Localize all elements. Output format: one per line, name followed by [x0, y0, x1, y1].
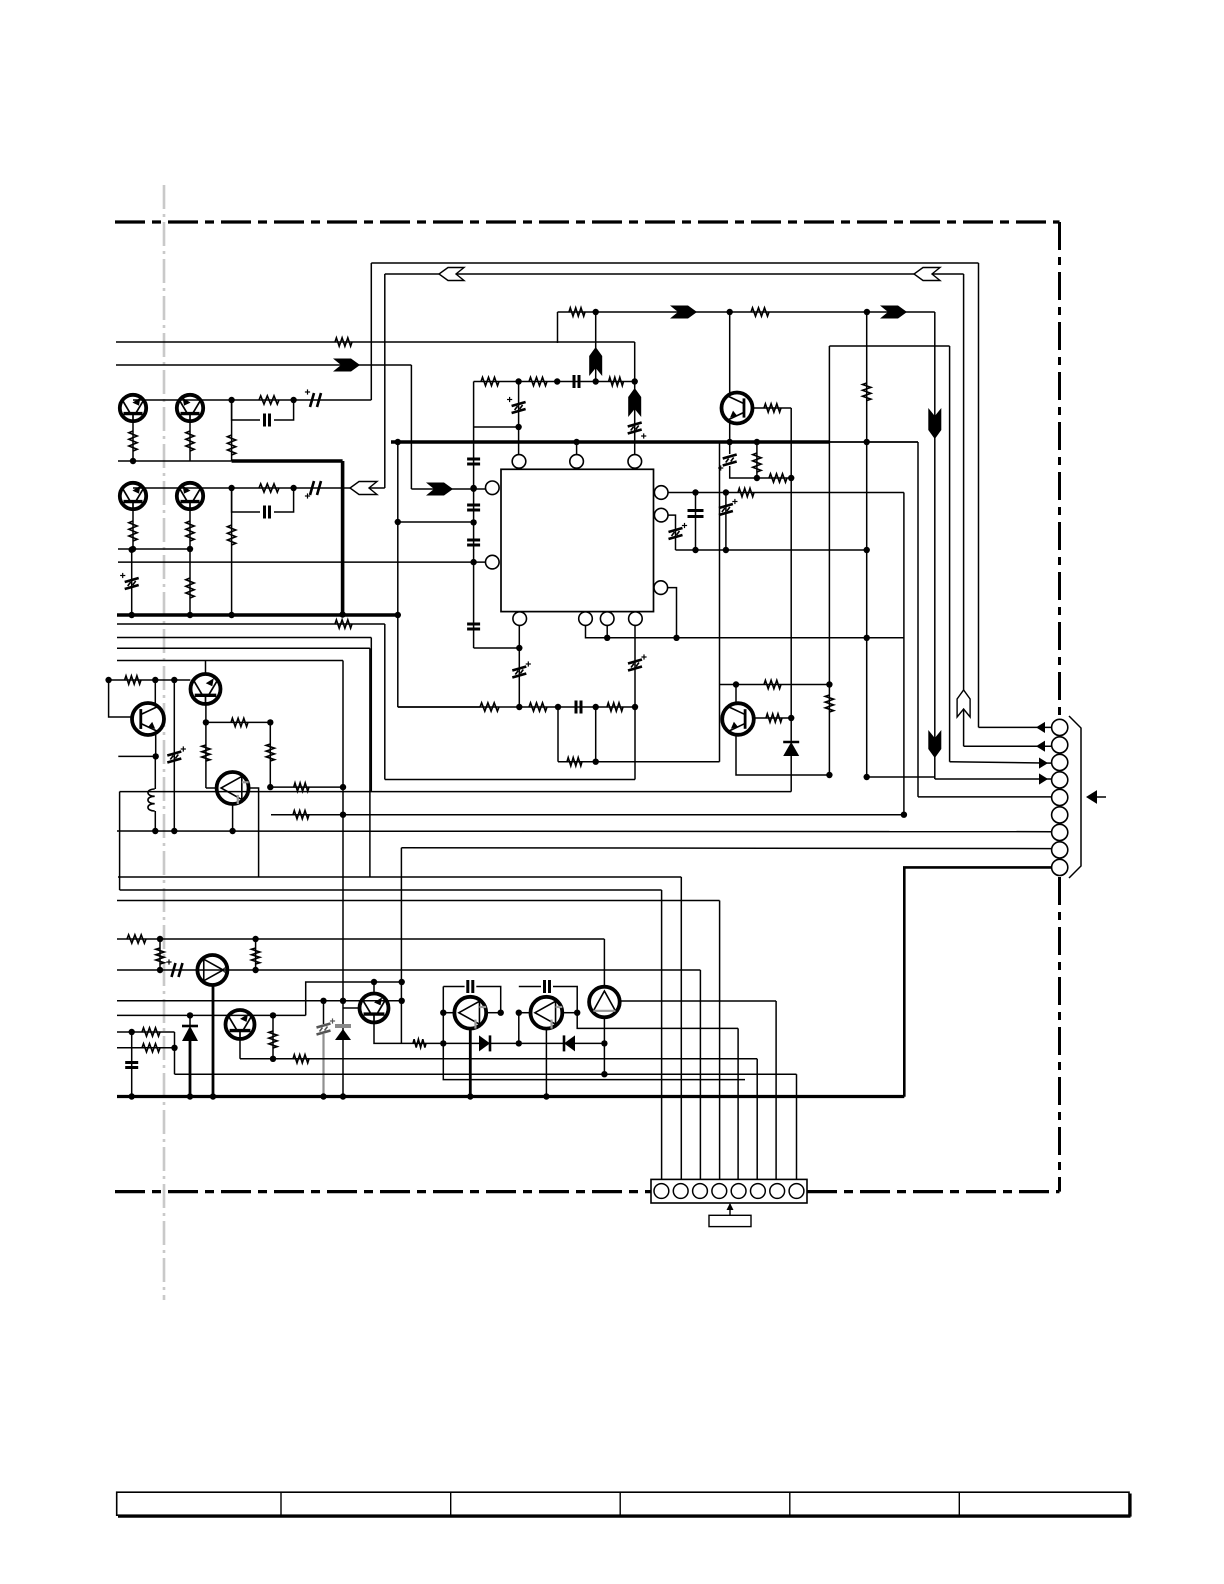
connector CN1 bracket: [1069, 716, 1081, 878]
connector CN2 pin circle 5: [731, 1184, 746, 1199]
junction 174.5/1047.8: [171, 1045, 177, 1051]
wire BUF4 right stub: [562, 1012, 577, 1014]
junction 273/1058.8: [270, 1056, 276, 1062]
wire net bus top outer: [371, 262, 978, 264]
transistor T10: [360, 994, 389, 1023]
wire row2 emitter join y549: [118, 548, 190, 550]
wire y707 chain: [398, 706, 480, 708]
electrolytic capacitor x635: [628, 660, 642, 671]
junction 133/461: [130, 458, 136, 464]
wire y427 link: [474, 426, 519, 428]
wire BUF4 left stub: [519, 1012, 531, 1014]
resistor y815: [293, 811, 309, 819]
wire inductor bottom: [154, 811, 156, 831]
arrowhead at CN1 bracket: [1086, 790, 1097, 804]
IC pin circle right 2: [654, 508, 668, 522]
junction 131.7/549.7: [129, 547, 135, 553]
junction 293.6/400: [290, 397, 296, 403]
junction 829.4/684.5: [826, 681, 832, 687]
junction 374/982: [371, 979, 377, 985]
wire vertical x369.9 to y877: [369, 648, 371, 877]
wire y890 line: [120, 889, 662, 891]
capacitor bracket row1 right: [274, 400, 294, 420]
capacitor chain c2: [467, 505, 480, 510]
connector CN1 pin circle 4: [1052, 772, 1068, 788]
IC pin circle right 1: [654, 486, 668, 500]
junction 323.5/1096.5: [320, 1093, 326, 1099]
thick wire BUF2 bottom: [212, 985, 215, 1097]
wire y848 line: [401, 847, 1051, 850]
junction 342.6/614: [339, 611, 345, 617]
resistor on y342: [335, 338, 352, 346]
wire IC bottom pin2 corner: [586, 625, 904, 637]
wire feed c4: [719, 901, 721, 1185]
wire vertical x384.8 lower: [384, 624, 386, 780]
capacitor bracket row2: [232, 488, 260, 512]
transistor Q4: [177, 483, 203, 509]
page frame bottom dash-dot border right segment: [807, 1190, 1060, 1193]
electrolytic capacitor x174.3: [167, 752, 181, 763]
wire x635 down to y779.5: [634, 707, 636, 780]
junction 756.9/478: [754, 475, 760, 481]
junction 518.6/427: [515, 424, 521, 430]
wire TA collector from y312: [729, 312, 731, 393]
page frame right dash-dot border lower segment: [1058, 877, 1061, 1192]
junction 133/549: [130, 546, 136, 552]
wire feed c5: [737, 1028, 739, 1184]
resistor x273: [269, 1031, 277, 1048]
capacitor bracket BUF3: [443, 986, 464, 988]
wire y831 long line: [117, 830, 1052, 833]
junction 725.9/550: [723, 547, 729, 553]
capacitor chain c1: [467, 459, 480, 464]
wire BUF1 base: [206, 787, 217, 789]
connector CN2 pin circle 6: [751, 1184, 766, 1199]
buffer transistor BUF2: [197, 955, 227, 985]
IC pin circle left 1: [486, 481, 500, 495]
capacitor chain c3: [467, 540, 480, 545]
junction 343/1000.8: [340, 998, 346, 1004]
signal arrow solid right to IC pin: [426, 483, 453, 496]
IC pin circle bottom 4: [629, 612, 643, 626]
wire y939 corner down to TRI1: [603, 939, 605, 987]
wire y550 join: [676, 549, 867, 551]
transistor T6: [132, 703, 164, 735]
connector CN2 pin circle 1: [654, 1184, 669, 1199]
junction 190/1015.4: [187, 1012, 193, 1018]
wire vertical outer loop left leg: [370, 263, 372, 400]
wire y680 line: [109, 679, 191, 681]
wire vertical x411 from y365 to IC arrow wire: [410, 365, 412, 489]
wire net bus second: [385, 273, 964, 275]
junction 595.7/707: [593, 704, 599, 710]
IC pin circle bottom 2: [579, 612, 593, 626]
resistor x160: [156, 948, 164, 964]
resistor x231.6 row2: [227, 525, 235, 545]
wire T6 base corner: [109, 680, 133, 717]
junction 473.6/522: [470, 519, 476, 525]
wire T5 collector: [205, 661, 207, 675]
signal arrow solid up on x595.7: [589, 347, 602, 376]
transistor T9: [226, 1010, 255, 1039]
wire IC right pin3 jog down: [668, 588, 677, 638]
wire input line y365: [116, 364, 411, 366]
inductor x155: [148, 789, 155, 811]
junction 231.6/400: [228, 397, 234, 403]
wire vertical second loop left leg: [384, 274, 386, 488]
signal arrow open up on x963.6: [957, 690, 970, 717]
wire x205.9 resistor drop: [205, 722, 207, 788]
wire row2 base line y488: [133, 487, 385, 489]
wire x270.3 resistor drop: [269, 722, 271, 787]
wire y522 line: [398, 521, 474, 523]
wire y660.5 line: [117, 660, 343, 662]
signal arrow solid right on y365: [333, 359, 360, 372]
electrolytic capacitor below TA: [723, 455, 737, 466]
junction 231.6/615: [228, 612, 234, 618]
wire inductor top: [154, 756, 156, 789]
electrolytic capacitor row1 y400: [310, 393, 321, 407]
connector CN1 pin circle 5: [1052, 789, 1068, 805]
wire x557.5 drop to y342: [557, 312, 559, 343]
wire vertical x634.7 from y342 to IC pin: [634, 342, 636, 382]
wire vertical x397.8: [397, 442, 399, 707]
capacitor above BUF3: [468, 980, 473, 993]
wire BUF1 bottom: [232, 804, 234, 831]
wire y970 line: [117, 969, 700, 971]
wire IC left pin1 arrow wire: [411, 488, 485, 490]
junction 343/787.1: [340, 784, 346, 790]
wire TB base resistor y718: [754, 717, 791, 719]
junction 343/1096.5: [340, 1093, 346, 1099]
junction 866.7/638: [864, 635, 870, 641]
wire IC top pin2 to bus: [576, 442, 578, 455]
wire row1 Q1 emitter resistor: [132, 422, 134, 462]
wire corner x729.7 to y478: [730, 466, 792, 478]
thick wire x190 diode to bus: [189, 1041, 192, 1097]
wire TA right resistor y408: [753, 407, 792, 409]
resistor y1058.8: [293, 1055, 309, 1063]
wire x866.7 vertical: [866, 312, 868, 777]
junction 903.9/815: [901, 812, 907, 818]
junction 401.7/1000.8: [399, 998, 405, 1004]
resistor y761.7: [567, 758, 582, 766]
connector CN1 pin circle 1: [1052, 719, 1068, 735]
triangle transistor TRI1: [589, 987, 620, 1018]
wire vertical x634.7 arrow+cap to pin: [634, 382, 636, 455]
wire feed c6: [756, 1059, 758, 1185]
arrowhead into c3: [1039, 758, 1048, 769]
junction 791.2/478: [788, 475, 794, 481]
connector CN2 pin circle 8: [789, 1184, 804, 1199]
fold mark gray vertical dash-dot line: [163, 185, 166, 1300]
buffer transistor BUF1: [217, 772, 249, 804]
wire x343 long vertical: [342, 661, 344, 1097]
resistor x205.9: [202, 745, 210, 761]
resistor y787.1: [294, 783, 309, 791]
wire y624 line: [117, 623, 385, 625]
connector CN2 box: [651, 1179, 807, 1203]
resistor row1 y400: [259, 396, 279, 404]
junction 473/489: [470, 486, 476, 492]
diode x343: [335, 1029, 351, 1040]
thick wire y461: [232, 459, 343, 463]
IC pin circle top 3: [628, 455, 642, 469]
wire BUF4 output jog: [577, 1013, 738, 1029]
wire corner x305.7 up: [306, 982, 402, 1015]
wire y684.5: [720, 684, 831, 686]
wire IC bottom pin3 stub: [606, 625, 608, 637]
diode y1043.4 left-pointing: [564, 1035, 575, 1051]
junction 695.5/550: [692, 547, 698, 553]
revision table: [117, 1492, 1131, 1516]
junction 190/1096.5: [187, 1093, 193, 1099]
wire corner x791.2 down: [790, 408, 792, 792]
wire feed c8: [796, 1074, 798, 1184]
connector CN1 arrow label: [1097, 796, 1106, 798]
junction 756.9/442: [754, 439, 760, 445]
connector CN2 label arrowhead: [727, 1203, 734, 1210]
wire x558 drop: [557, 707, 559, 762]
signal arrow open pointing left: [439, 268, 464, 281]
wire y727.4 to connector: [979, 726, 1052, 728]
junction 443.3/1012.7: [440, 1010, 446, 1016]
wire TRI1 bottom: [603, 1017, 605, 1074]
resistor y707 a: [480, 703, 499, 711]
wire y791.6 long: [120, 791, 792, 793]
capacitor y707: [576, 701, 581, 714]
wire x518.6 upper chain: [518, 382, 520, 455]
signal arrow open pointing left on y488: [350, 482, 377, 495]
diode x190: [182, 1026, 198, 1041]
junction 607.2/638: [604, 635, 610, 641]
wire x595.7 drop: [595, 707, 597, 762]
junction 160/939: [157, 936, 163, 942]
junction 866.7/777: [864, 774, 870, 780]
wire BUF1 output corner: [249, 788, 259, 877]
resistor y478: [769, 474, 787, 482]
junction 397.8/522: [395, 519, 401, 525]
arrowhead into c4: [1039, 773, 1048, 784]
resistor on y492.5: [738, 488, 754, 496]
connector CN2 pin circle 7: [770, 1184, 785, 1199]
junction 676.5/638: [673, 635, 679, 641]
wire T9 emitter: [239, 1039, 241, 1059]
electrolytic capacitor on x634.7: [628, 423, 642, 434]
wire vertical second loop right leg: [963, 274, 965, 746]
electrolytic capacitor gray x323.5: [317, 1024, 331, 1035]
junction 160/970: [157, 967, 163, 973]
wire BUF3 left stub: [443, 1012, 454, 1014]
junction 255.6/939: [252, 936, 258, 942]
capacitor bracket BUF3 right: [476, 987, 500, 1013]
wire T6 collector: [154, 680, 156, 704]
wire T6 emitter: [155, 734, 157, 756]
wire x323.5 branch upper: [323, 1001, 325, 1024]
thick bus y615: [117, 613, 398, 617]
wire BUF3 right stub: [486, 1012, 501, 1014]
junction 595.7/381.5: [593, 378, 599, 384]
wire y900.5 line: [117, 900, 720, 902]
resistor right of TA: [764, 404, 781, 412]
connector CN1 pin circle 2: [1052, 737, 1068, 753]
capacitor bracket row1: [232, 400, 260, 420]
resistor y1032: [142, 1028, 160, 1036]
wire y722.4: [206, 721, 270, 723]
capacitor row2 feedback: [265, 506, 270, 519]
junction 131.7/1032: [129, 1029, 135, 1035]
wire T10 emitter corner: [374, 1023, 413, 1044]
wire y1000.8 line: [117, 1000, 402, 1002]
wire feed c1: [661, 890, 663, 1185]
resistor y684.5: [764, 680, 781, 688]
wire y815 line: [271, 814, 904, 816]
buffer transistor BUF3: [454, 997, 486, 1029]
wire BUF4 bottom: [545, 1029, 547, 1097]
wire row1 base line y400: [133, 399, 371, 401]
wire IC bottom pin1 chain: [518, 625, 520, 707]
resistor on y381.5 c: [609, 377, 624, 385]
junction 443.3/1043.4: [440, 1040, 446, 1046]
connector CN2 label box: [709, 1215, 751, 1226]
signal arrow open pointing left near right corner: [914, 268, 940, 281]
wire y1058.8 line: [240, 1058, 757, 1060]
junction 231.6/488: [228, 485, 234, 491]
wire x695.5 cap branch: [695, 493, 697, 551]
resistor below Q2: [186, 431, 194, 451]
wire y756.4: [118, 755, 155, 757]
connector CN1 pin circle 9: [1052, 859, 1068, 875]
capacitor x695.5 large: [688, 511, 704, 517]
resistor below Q1: [129, 431, 137, 451]
wire vertical outer loop right leg: [978, 263, 980, 727]
resistor TB base: [766, 714, 782, 722]
junction 190/549: [187, 546, 193, 552]
wire x190 resistor to bus: [189, 549, 191, 615]
resistor y1043.4: [413, 1039, 426, 1047]
resistor below Q4: [186, 521, 194, 541]
wire y707 chain main: [398, 706, 635, 708]
junction 131.7/1096.5: [129, 1093, 135, 1099]
bus y442 thin continuation: [830, 441, 918, 443]
page frame right dash-dot border upper segment: [1058, 222, 1061, 717]
wire x174.5 vertical: [174, 1032, 176, 1074]
junction at 730/312: [727, 309, 733, 315]
connector CN1 pin circle 6: [1052, 807, 1068, 823]
junction 635/707: [632, 704, 638, 710]
thick wire BUF3 bottom: [469, 1029, 472, 1097]
IC pin circle left 2: [486, 555, 500, 569]
resistor x270.3: [266, 744, 274, 761]
page frame bottom dash-dot border left segment: [115, 1190, 651, 1193]
connector CN2 label arrow: [729, 1204, 731, 1215]
resistor on y381.5 b: [529, 377, 547, 385]
junction 558/707: [555, 704, 561, 710]
wire x190 diode branch top: [189, 1015, 191, 1026]
wire T10 collector: [373, 982, 375, 994]
wire x443.3 vertical jog: [443, 987, 745, 1080]
junction 470.3/1096.5: [467, 1093, 473, 1099]
resistor x231.6 row1: [227, 435, 235, 455]
resistor on y381.5 a: [481, 377, 499, 385]
wire BUF4 left drop: [518, 1013, 520, 1044]
wire vertical x231.6 row2: [231, 488, 233, 615]
junction 155.3/831: [152, 828, 158, 834]
wire x131.7 cap branch: [131, 550, 133, 615]
page frame top dash-dot border: [115, 220, 1060, 223]
junction 695.5/492.5: [692, 489, 698, 495]
junction 829.4/775: [826, 772, 832, 778]
junction 546.4/1096.5: [543, 1093, 549, 1099]
wire T10 base link: [343, 1007, 360, 1009]
resistor x190 to bus: [186, 578, 194, 598]
diode x343 gray cathode bar: [335, 1024, 351, 1028]
transistor Q3: [120, 483, 146, 509]
wire x131.7 cap branch lower: [131, 1032, 133, 1097]
wire y877 line: [118, 876, 681, 878]
wire row1 emitter join y461: [118, 460, 232, 462]
junction 270.3/722.4: [267, 719, 273, 725]
arrowhead out c1: [1036, 722, 1045, 733]
junction 205.9/722.4: [203, 719, 209, 725]
capacitor row1 feedback: [265, 414, 270, 427]
junction 519.3/707: [516, 704, 522, 710]
wire y1015.4 line: [117, 1014, 306, 1016]
connector CN2 pin circle 3: [693, 1184, 708, 1199]
wire x323.5 branch lower gray: [322, 1034, 324, 1097]
junction 473.6/488: [470, 485, 476, 491]
junction 190/615: [187, 612, 193, 618]
wire T5 emitter: [205, 704, 207, 723]
wire y796.9 to connector: [918, 796, 1052, 798]
wire y648.2 line: [117, 647, 370, 649]
wire x756.9 resistor branch: [756, 442, 758, 478]
wire input line y342: [116, 341, 635, 343]
wire feed c3: [699, 970, 701, 1185]
signal arrow solid up on x634.7: [628, 388, 641, 417]
wire row2 Q4 emitter resistor: [189, 510, 191, 550]
transistor Q1: [120, 395, 146, 421]
junction 155.7/756.4: [153, 753, 159, 759]
wire x829.4 vertical: [828, 346, 830, 775]
resistor on y312 right: [751, 308, 769, 316]
junction 174.3/831: [171, 828, 177, 834]
resistor y939: [127, 935, 146, 943]
junction 232.6/831: [229, 828, 235, 834]
resistor x866.7: [863, 383, 871, 401]
junction 791.2/718: [788, 715, 794, 721]
signal arrow solid down lower on x934.8: [928, 730, 941, 758]
transistor TB right-middle: [722, 703, 754, 735]
wire IC right pin2 jog: [668, 515, 676, 550]
wire IC right pin1 net y492.5: [668, 492, 904, 494]
junction 725.9/492.5: [723, 489, 729, 495]
wire feed c7: [775, 1001, 777, 1185]
resistor x255.6: [251, 948, 259, 964]
wire TRI1 right output y1001: [620, 1000, 776, 1002]
wire y779.5: [385, 779, 635, 781]
thick bus y442: [391, 440, 830, 444]
electrolytic capacitor row2 y488: [310, 481, 321, 495]
wire x949.6 loop leg: [949, 346, 951, 762]
wire x918 bus drop: [917, 442, 919, 797]
wire TA emitter to bus: [729, 423, 731, 442]
junction 595.7/312: [593, 309, 599, 315]
junction 401.7/982: [399, 979, 405, 985]
wire vertical x231.6 row1: [231, 400, 233, 461]
junction 604.4/1043.4: [601, 1040, 607, 1046]
IC U1 main block: [501, 469, 654, 611]
